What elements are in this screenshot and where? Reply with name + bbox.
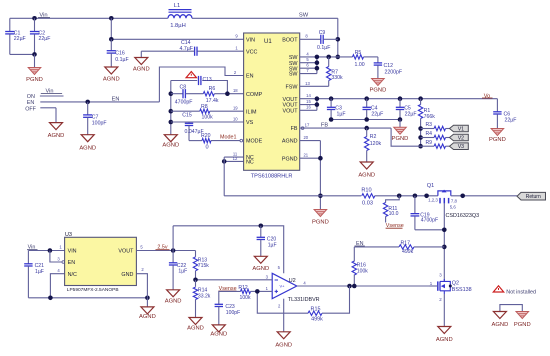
capacitor C21 <box>27 251 29 264</box>
wire L1 to SW node <box>192 17 338 19</box>
svg-text:1.00: 1.00 <box>355 62 365 68</box>
ground AGND under C20 <box>254 256 267 263</box>
svg-text:C4: C4 <box>371 105 378 111</box>
svg-text:R2: R2 <box>370 134 377 140</box>
svg-text:C8: C8 <box>180 84 187 90</box>
svg-text:22µF: 22µF <box>405 112 417 118</box>
svg-text:AGND: AGND <box>187 326 204 332</box>
svg-text:100k: 100k <box>240 295 251 301</box>
svg-text:PGND: PGND <box>282 156 298 162</box>
svg-text:766k: 766k <box>424 114 436 120</box>
svg-text:120k: 120k <box>370 141 382 147</box>
ground PGND under C1/C2 <box>34 54 36 67</box>
svg-text:PGND: PGND <box>514 322 531 328</box>
svg-text:PGND: PGND <box>312 220 329 226</box>
svg-text:EN: EN <box>246 74 254 80</box>
wire SW drop <box>337 18 339 57</box>
op-amp U3 LP5907 <box>65 237 137 285</box>
svg-text:PGND: PGND <box>26 77 43 83</box>
resistor R12 <box>218 290 240 292</box>
svg-text:EN: EN <box>27 100 35 106</box>
svg-text:10: 10 <box>233 117 238 122</box>
svg-text:C3: C3 <box>335 105 342 111</box>
svg-text:4700pF: 4700pF <box>421 217 438 223</box>
svg-text:BOOT: BOOT <box>282 37 298 43</box>
svg-text:FSW: FSW <box>286 84 299 90</box>
svg-text:LP5907MFX-2.5ANOPB: LP5907MFX-2.5ANOPB <box>67 287 119 293</box>
svg-text:C14: C14 <box>181 40 191 46</box>
wire NC tie <box>50 274 64 298</box>
svg-text:AGND: AGND <box>275 342 292 348</box>
svg-text:AGND: AGND <box>79 146 96 152</box>
resistor R17 <box>354 246 399 248</box>
ground AGND under C16 <box>105 67 118 74</box>
svg-text:PGND: PGND <box>370 88 387 94</box>
ground PGND under C12 <box>372 79 385 86</box>
ground AGND under OFF <box>50 123 63 130</box>
svg-text:VS: VS <box>246 120 254 126</box>
svg-text:33.2k: 33.2k <box>198 294 211 300</box>
svg-text:20: 20 <box>303 135 308 140</box>
wire C1/C2 bottoms <box>10 53 35 55</box>
capacitor C15 <box>171 121 244 123</box>
node Return flag <box>517 192 546 200</box>
svg-text:1.8µH: 1.8µH <box>170 23 186 29</box>
ground AGND under U2 <box>277 332 290 339</box>
ground PGND under U1 <box>314 210 327 217</box>
svg-text:499k: 499k <box>311 316 323 322</box>
svg-text:SW: SW <box>299 13 309 19</box>
svg-text:V2: V2 <box>458 136 464 142</box>
svg-text:U2: U2 <box>289 278 296 284</box>
svg-text:17.4k: 17.4k <box>206 98 219 104</box>
ground PGND under C6 <box>491 129 504 136</box>
svg-text:499k: 499k <box>402 249 414 255</box>
wire 2.5v riser <box>172 226 174 251</box>
resistor R8 <box>171 110 200 112</box>
svg-text:19: 19 <box>233 106 238 111</box>
svg-text:21: 21 <box>303 153 308 158</box>
svg-text:ILIM: ILIM <box>246 109 257 115</box>
svg-text:22µF: 22µF <box>371 112 383 118</box>
wire VOUT bus <box>300 98 498 100</box>
svg-text:4700pF: 4700pF <box>175 99 193 105</box>
svg-text:7,8: 7,8 <box>451 199 458 204</box>
svg-text:AGND: AGND <box>252 266 269 272</box>
svg-text:V1: V1 <box>458 127 464 133</box>
legend grounds <box>500 305 522 312</box>
wire EN to EN pin 2 <box>159 67 243 102</box>
svg-text:C6: C6 <box>504 111 511 117</box>
legend not installed <box>493 286 503 292</box>
resistor R14 <box>195 280 197 287</box>
svg-text:VCC: VCC <box>246 49 257 55</box>
resistor R9 <box>421 145 434 147</box>
svg-text:22µF: 22µF <box>39 36 51 42</box>
resistor R6 <box>186 93 204 95</box>
resistor R10 0.03 <box>362 194 375 198</box>
svg-text:15: 15 <box>306 99 311 104</box>
resistor R7 <box>328 57 330 67</box>
wire U2 output <box>297 285 438 287</box>
resistor R20 <box>189 140 202 142</box>
svg-text:AGND: AGND <box>436 337 453 343</box>
svg-text:12: 12 <box>233 156 238 161</box>
capacitor C13 not installed <box>171 80 197 82</box>
svg-text:ON: ON <box>27 94 35 100</box>
op-amp U2 TL331IDBVR <box>272 273 297 298</box>
wire AGND/PGND pins <box>300 140 321 142</box>
svg-text:TL331IDBVR: TL331IDBVR <box>288 297 320 303</box>
svg-text:R6: R6 <box>209 86 216 92</box>
resistor R5 snubber <box>353 55 364 59</box>
svg-text:L1: L1 <box>174 3 180 9</box>
svg-text:GND: GND <box>121 272 133 278</box>
svg-text:CSD16323Q3: CSD16323Q3 <box>446 213 480 219</box>
svg-text:VOUT: VOUT <box>118 249 134 255</box>
capacitor C9 <box>300 38 321 40</box>
wire AGND bus <box>170 81 172 135</box>
svg-text:NC: NC <box>246 160 254 166</box>
capacitor C2 <box>34 18 36 31</box>
node 2.5v <box>136 250 195 252</box>
wire bottom rail <box>28 297 147 299</box>
svg-text:C12: C12 <box>384 63 394 69</box>
svg-text:330k: 330k <box>331 75 343 81</box>
svg-text:0.03: 0.03 <box>362 201 373 207</box>
wire Vin to VIN pin 9 <box>110 18 112 39</box>
ground AGND comp bus <box>164 135 177 142</box>
svg-text:EN: EN <box>112 96 120 102</box>
svg-text:Mode1: Mode1 <box>220 135 236 141</box>
capacitor C14 <box>197 50 243 52</box>
wire cap bottoms <box>331 119 400 121</box>
svg-text:R20: R20 <box>201 133 211 139</box>
svg-text:EN: EN <box>68 260 76 266</box>
wire EN tie <box>50 251 62 263</box>
svg-text:Q1: Q1 <box>427 183 434 189</box>
resistor R2 <box>366 128 368 136</box>
svg-text:14: 14 <box>306 93 311 98</box>
capacitor C20 <box>260 226 262 237</box>
resistor R3 <box>421 128 434 130</box>
ground AGND under U3 <box>146 298 148 307</box>
svg-text:0.1µF: 0.1µF <box>317 45 330 51</box>
ground AGND for C14 <box>140 51 142 57</box>
svg-text:U3: U3 <box>65 232 72 238</box>
svg-text:13: 13 <box>305 81 310 86</box>
resistor R4 <box>421 137 434 139</box>
ground AGND under C22 <box>167 290 180 297</box>
transistor Q2 BSS138 <box>437 281 439 290</box>
svg-text:17: 17 <box>305 123 310 128</box>
wire U2 V+ supply <box>173 226 284 273</box>
svg-text:AGND: AGND <box>165 299 182 305</box>
ground PGND under C5 <box>399 120 401 128</box>
svg-text:4.7µF: 4.7µF <box>180 46 193 52</box>
svg-text:1,2,3: 1,2,3 <box>428 198 438 203</box>
capacitor C1 <box>9 18 11 31</box>
svg-text:OFF: OFF <box>25 106 36 112</box>
wire U2 gnd pin <box>283 299 285 332</box>
capacitor C5 <box>399 99 401 107</box>
svg-text:10.0: 10.0 <box>389 211 399 217</box>
capacitor C3 <box>330 99 332 107</box>
svg-text:VOUT: VOUT <box>283 108 299 114</box>
svg-text:100pF: 100pF <box>92 121 107 127</box>
capacitor C8 <box>171 93 183 95</box>
svg-text:U1: U1 <box>264 39 272 45</box>
svg-text:R12: R12 <box>238 285 248 291</box>
wire NC pins loop <box>224 156 243 158</box>
svg-text:AGND: AGND <box>103 76 120 82</box>
wire SW bus <box>300 56 353 58</box>
svg-text:V+: V+ <box>280 283 286 288</box>
svg-text:FB: FB <box>321 123 328 129</box>
svg-text:Not installed: Not installed <box>506 290 536 296</box>
capacitor C7 <box>85 100 90 105</box>
wire Q2 source to AGND <box>443 294 445 327</box>
resistor R13 <box>195 251 197 257</box>
svg-text:0.1µF: 0.1µF <box>115 57 128 63</box>
svg-text:FB: FB <box>291 126 298 132</box>
svg-text:C5: C5 <box>404 105 411 111</box>
svg-text:Return: Return <box>526 194 541 200</box>
svg-text:1µF: 1µF <box>178 268 187 274</box>
svg-text:2200pF: 2200pF <box>385 70 403 76</box>
svg-text:18: 18 <box>233 88 238 93</box>
svg-text:TPS61088RHLR: TPS61088RHLR <box>251 174 293 180</box>
svg-text:Vo: Vo <box>484 94 491 100</box>
svg-text:VIN: VIN <box>246 37 255 43</box>
svg-text:AGND: AGND <box>48 133 65 139</box>
node Vin rail <box>10 17 168 19</box>
svg-text:0: 0 <box>205 144 208 150</box>
wire Q1 source to Return <box>451 195 517 197</box>
svg-text:C9: C9 <box>319 30 326 36</box>
resistor R1 <box>420 99 422 105</box>
ground AGND under Q2 <box>438 327 451 334</box>
svg-text:AGND: AGND <box>210 332 227 338</box>
svg-text:R15: R15 <box>311 307 321 313</box>
svg-text:C15: C15 <box>182 113 192 119</box>
wire U2 inputs <box>196 279 273 281</box>
capacitor C4 <box>366 99 368 107</box>
svg-text:COMP: COMP <box>246 92 263 98</box>
op-amp U1 TPS61088RHLR <box>244 33 300 170</box>
capacitor C6 <box>496 99 498 112</box>
capacitor C16 <box>110 39 112 50</box>
svg-text:AGND: AGND <box>139 314 156 320</box>
svg-text:Q2: Q2 <box>452 280 459 286</box>
wire GND pin <box>136 274 147 298</box>
capacitor C12 <box>377 57 379 63</box>
wire return rail <box>224 195 361 197</box>
svg-text:V3: V3 <box>458 144 464 150</box>
resistor R15 feedback <box>257 291 308 313</box>
capacitor C23 <box>218 291 220 304</box>
svg-text:R9: R9 <box>426 140 433 146</box>
resistor R16 <box>353 247 355 262</box>
svg-text:AGND: AGND <box>162 143 179 149</box>
svg-text:N/C: N/C <box>68 272 77 278</box>
svg-text:5,6: 5,6 <box>450 204 457 209</box>
svg-text:R4: R4 <box>426 131 433 137</box>
svg-text:C7: C7 <box>92 114 99 120</box>
svg-text:AGND: AGND <box>492 322 509 328</box>
svg-text:100k: 100k <box>357 268 368 274</box>
svg-text:C16: C16 <box>115 51 125 57</box>
wire divider chain <box>420 129 422 147</box>
svg-text:MODE: MODE <box>246 139 263 145</box>
ground AGND under C7 <box>81 135 94 142</box>
svg-text:AGND: AGND <box>133 67 150 73</box>
svg-text:AGND: AGND <box>358 173 375 179</box>
ground AGND under C23 <box>212 325 225 332</box>
svg-text:R10: R10 <box>361 187 371 193</box>
capacitor C19 <box>414 196 416 214</box>
svg-text:R5: R5 <box>355 50 362 56</box>
svg-text:BSS138: BSS138 <box>452 287 472 293</box>
svg-text:PGND: PGND <box>489 137 506 143</box>
wire Q1 gate chain <box>443 203 445 281</box>
svg-text:1µF: 1µF <box>35 269 44 275</box>
svg-text:22µF: 22µF <box>14 36 26 42</box>
svg-text:R17: R17 <box>401 240 411 246</box>
ground AGND under R2 <box>360 162 373 169</box>
svg-text:1µF: 1µF <box>268 243 277 249</box>
svg-text:715k: 715k <box>198 263 209 269</box>
svg-text:VIN: VIN <box>68 249 77 255</box>
svg-text:100pF: 100pF <box>226 310 240 316</box>
svg-text:1µF: 1µF <box>337 112 346 118</box>
inductor L1 1.8uH <box>169 9 192 11</box>
svg-text:100k: 100k <box>202 115 214 121</box>
svg-text:SW: SW <box>289 72 299 78</box>
svg-text:R8: R8 <box>201 104 208 110</box>
ground AGND under R14 <box>189 318 202 325</box>
capacitor C22 <box>172 251 174 263</box>
svg-text:R3: R3 <box>426 122 433 128</box>
svg-text:PGND: PGND <box>392 136 409 142</box>
svg-text:22µF: 22µF <box>505 118 517 124</box>
svg-text:16: 16 <box>306 105 311 110</box>
svg-text:C13: C13 <box>203 77 212 83</box>
wire FB <box>300 127 391 129</box>
resistor R11 <box>386 196 400 203</box>
svg-text:AGND: AGND <box>282 139 298 145</box>
